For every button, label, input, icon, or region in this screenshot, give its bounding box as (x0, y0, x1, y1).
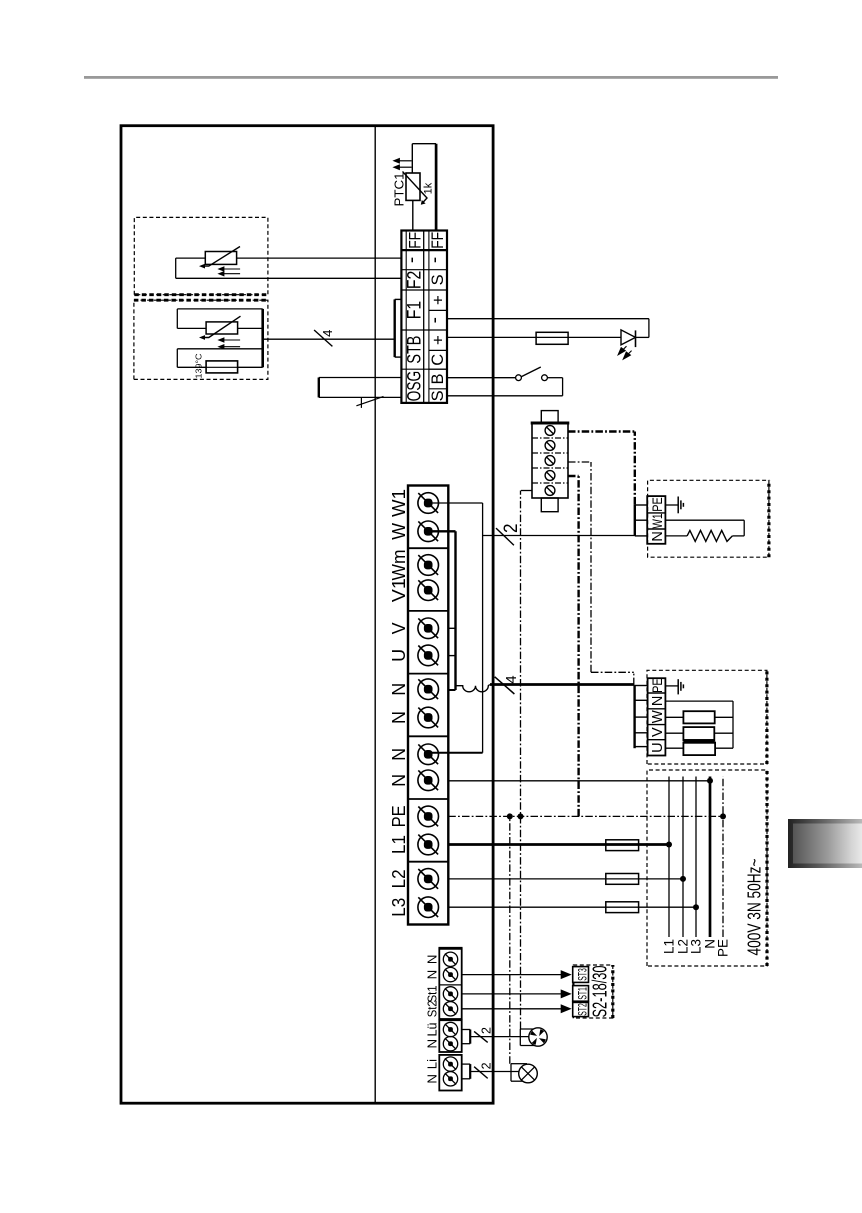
svg-text:ST3: ST3 (577, 968, 589, 981)
svg-text:B: B (429, 373, 447, 384)
enclosure partition (374, 126, 376, 1104)
OSG pair bundle (318, 378, 320, 398)
svg-text:L3: L3 (389, 898, 409, 917)
svg-text:-: - (425, 257, 446, 263)
LED H8 (636, 336, 649, 338)
element wires + collector (665, 700, 733, 702)
cable bundle bar (4-wire) (261, 309, 264, 367)
mains line L3 (695, 777, 697, 938)
mains line L1 (668, 777, 670, 938)
svg-text:PE: PE (650, 497, 665, 512)
svg-text:PE: PE (389, 805, 409, 827)
wire sensor STB left loop (177, 327, 206, 329)
heater elements 3x (683, 711, 714, 723)
svg-text:N: N (389, 774, 409, 787)
wire to fan (470, 1036, 529, 1038)
wire sensor STB right lead (238, 327, 263, 329)
OSG cable slash (356, 397, 383, 406)
svg-text:V1: V1 (389, 578, 409, 602)
bundle bar 2-wire (634, 504, 636, 536)
svg-text:N: N (425, 1039, 440, 1049)
svg-text:FF: FF (407, 232, 425, 249)
svg-text:U: U (650, 742, 666, 752)
switch S1 (516, 375, 522, 381)
dashed box: outside sensor (F2/-) (134, 217, 268, 294)
svg-text:L2: L2 (389, 869, 409, 888)
svg-text:F1: F1 (405, 301, 426, 320)
plug ST1 (573, 986, 589, 1002)
sensor B2 arrows (224, 268, 240, 270)
slash 2 (lamp) (474, 1067, 488, 1079)
jumper W1 to N (thin) (428, 502, 482, 504)
svg-text:N: N (425, 955, 440, 965)
svg-text:-: - (425, 317, 446, 323)
sensor connection arrows (398, 166, 412, 168)
svg-text:STB: STB (405, 336, 426, 364)
wire N (448, 780, 710, 782)
terminal block X5 (N Lü) (439, 1020, 461, 1052)
2-wire cable to flange heater (483, 535, 635, 537)
svg-text:W1: W1 (650, 514, 665, 529)
svg-text:-: - (402, 257, 423, 263)
fan symbol (529, 1028, 547, 1046)
svg-text:L1: L1 (662, 939, 677, 954)
heater element resistor (zigzag) (665, 535, 687, 537)
wire L2 + fuse (448, 878, 683, 880)
svg-text:N: N (389, 748, 409, 761)
LED arrows (618, 346, 626, 355)
terminal screws (418, 897, 439, 918)
lamp symbol (519, 1064, 538, 1083)
resistor (LED series) (536, 332, 568, 344)
wire L3 + fuse (448, 906, 696, 908)
stub to STB (395, 356, 402, 358)
PE line C (screw4 to PE wire) thick dash-dot (568, 475, 579, 477)
cable 4 wires to F1/STB (263, 338, 395, 340)
choke curl (456, 685, 490, 692)
slash 2 (fan) (474, 1031, 488, 1042)
thermistor PTC1 1k (406, 173, 420, 200)
ground symbol boiler (665, 685, 678, 687)
dashed box flange heater (648, 480, 769, 557)
block U V W N PE (648, 678, 666, 755)
svg-text:U: U (389, 649, 409, 662)
svg-text:St1: St1 (425, 985, 440, 1002)
svg-text:N: N (650, 531, 666, 541)
wire loop top (412, 143, 436, 145)
wire OSG pair b (319, 396, 402, 398)
wire fuse right lead (238, 366, 263, 368)
heavy dashed separator (box2 right edge) (134, 299, 268, 302)
bundle bar 4-wire (633, 685, 635, 748)
wire St2 to ST2 (462, 1008, 563, 1010)
svg-text:N: N (650, 696, 666, 706)
terminal block X1 (OSG STB F1 F2 - FF / S B C + - + S - FF) (401, 231, 447, 403)
wire to lamp (470, 1071, 519, 1073)
terminal block X4 (N N St1 St2) (439, 948, 461, 1019)
heavy dashed separator (box1 left edge) (134, 293, 268, 296)
svg-text:W1: W1 (389, 489, 409, 517)
svg-text:PTC1: PTC1 (393, 172, 407, 206)
svg-text:2: 2 (480, 1062, 494, 1069)
block N W1 PE (647, 496, 665, 544)
svg-text:PE: PE (716, 939, 731, 957)
thermal fuse 139°C (206, 361, 238, 373)
wire St1 to ST1 (462, 993, 563, 995)
svg-text:V: V (650, 727, 666, 737)
dashed box mains supply (647, 770, 767, 966)
svg-text:Li: Li (425, 1059, 440, 1069)
wire FF left to PTC1 (412, 200, 414, 230)
terminal strip X3 (408, 486, 448, 925)
sensor STB arrows (224, 339, 240, 341)
fan M bracket (519, 1029, 521, 1046)
enclosure outline (121, 126, 493, 1104)
svg-text:S2-18/30: S2-18/30 (590, 966, 612, 1018)
4-wire cable thick (490, 683, 634, 686)
svg-text:F2: F2 (405, 271, 426, 290)
terminal block X6 (N Li) (439, 1055, 461, 1091)
svg-text:N: N (425, 970, 440, 980)
line E (PE to lamp) dash-dot (509, 816, 511, 1063)
wire LED to resistor (568, 336, 621, 338)
svg-text:OSG: OSG (405, 371, 426, 402)
plug ST3 (573, 967, 589, 983)
svg-text:Lü: Lü (425, 1023, 440, 1037)
wire sensor B2 left lead loop to F2 (176, 257, 206, 259)
sensor STB symbol (206, 322, 238, 334)
svg-text:C: C (429, 354, 447, 366)
svg-text:W: W (389, 523, 409, 540)
svg-text:L3: L3 (689, 939, 704, 954)
line D (screw5 to fan) dash-dot (521, 490, 532, 492)
PE line B (screw3 to flange heater) dash-dot (568, 461, 591, 463)
PE line A (screw1 to boiler heater) thick dash-dot (568, 430, 635, 432)
svg-text:W: W (650, 710, 666, 723)
svg-text:PE: PE (650, 678, 665, 693)
wire PTC1 to loop (411, 144, 413, 173)
mains line L2 (682, 777, 684, 938)
wire OSG pair a (319, 377, 402, 379)
header rule (84, 76, 778, 79)
wire fuse left loop (177, 366, 206, 368)
wire N to ST3 (462, 974, 563, 976)
terminal block X2 (5 screws) (532, 423, 568, 498)
svg-text:2: 2 (501, 524, 522, 534)
plug rail (572, 967, 574, 1018)
svg-text:Wm: Wm (389, 550, 409, 581)
slash 2 (496, 528, 514, 545)
svg-text:400V 3N 50Hz~: 400V 3N 50Hz~ (744, 859, 765, 956)
wire FF right thick (435, 144, 438, 231)
svg-text:S: S (429, 274, 447, 285)
wire L1 thick + fuse (448, 843, 669, 846)
wire PE dash-dot (448, 815, 723, 817)
svg-text:ST1: ST1 (577, 987, 589, 1000)
X2 tabs (541, 498, 558, 512)
svg-text:FF: FF (429, 232, 447, 249)
svg-text:ST2: ST2 (577, 1003, 589, 1016)
svg-text:+: + (429, 335, 448, 345)
sensor B2 symbol (205, 252, 236, 265)
svg-text:N: N (425, 1074, 440, 1084)
bundle Lü/N pair (462, 1029, 471, 1031)
control unit S2-18/30 dashed box (573, 965, 612, 1018)
plug ST2 (573, 1002, 589, 1016)
ground symbol flange (665, 504, 678, 506)
wire resistor to plus (447, 336, 536, 338)
jumper W/V/U/N bracket (thick) (428, 530, 455, 532)
wire B to switch (447, 377, 516, 379)
dashed box boiler heater (647, 670, 767, 764)
svg-text:N: N (389, 711, 409, 724)
svg-text:L1: L1 (389, 835, 409, 854)
svg-text:139°C: 139°C (195, 353, 204, 378)
svg-text:2: 2 (480, 1027, 494, 1034)
svg-text:N: N (389, 683, 409, 696)
F1/STB bundle bar (394, 299, 396, 357)
page tab gradient (788, 819, 862, 868)
dashed box: STB sensor box (134, 300, 268, 379)
wire minus to LED cathode (447, 318, 649, 320)
svg-text:+: + (429, 295, 448, 305)
svg-text:4: 4 (503, 675, 520, 683)
slash 4 (495, 677, 515, 694)
svg-text:V: V (389, 622, 409, 634)
wire switch to S (547, 377, 562, 379)
wire sensor B2 right lead to "-" (237, 257, 403, 259)
mains line PE dash-dot (722, 777, 724, 938)
cable slash 4 (314, 330, 332, 346)
stub to F1 (395, 298, 402, 300)
svg-text:S: S (429, 390, 447, 401)
lamp bracket (510, 1064, 512, 1082)
svg-text:4: 4 (320, 330, 335, 337)
svg-text:1k: 1k (423, 182, 435, 194)
mains line N thick (709, 777, 712, 938)
bundle Li/N pair (462, 1063, 471, 1065)
